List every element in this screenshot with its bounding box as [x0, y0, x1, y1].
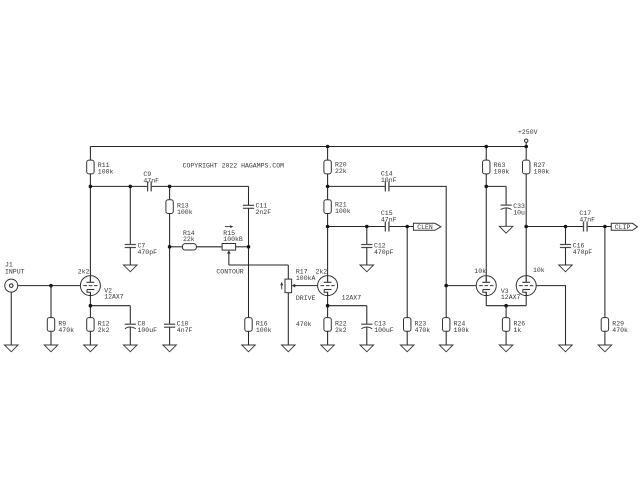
wire C14 to V3a grid node — [389, 186, 446, 285]
ground C7 — [124, 265, 138, 272]
junction B+ rail / +250V / R27 — [524, 145, 528, 149]
wire V3a grid node to V3a grid — [446, 285, 476, 287]
svg-text:470k: 470k — [612, 327, 628, 334]
capacitor C8 100uF — [125, 306, 157, 345]
net flag CLEN output — [413, 223, 441, 231]
capacitor C10 4n7F — [164, 247, 193, 345]
svg-text:2n2F: 2n2F — [256, 209, 272, 216]
junction J1 / R9 / V2a grid — [49, 284, 53, 288]
svg-text:2k2: 2k2 — [98, 327, 110, 334]
wire V2a cathode to C8 — [90, 305, 130, 307]
resistor R29 470k — [601, 227, 628, 346]
wire V2b cathode to C13 — [328, 305, 367, 307]
junction B+ rail / R63 — [484, 145, 488, 149]
svg-text:CLEN: CLEN — [417, 224, 433, 231]
svg-text:2k2: 2k2 — [335, 327, 347, 334]
tube V2 triode b 12AX7 — [318, 227, 362, 306]
ground C8 — [124, 345, 138, 352]
svg-text:+250V: +250V — [518, 129, 538, 136]
svg-text:470pF: 470pF — [374, 249, 394, 256]
svg-text:CONTOUR: CONTOUR — [216, 268, 243, 275]
ground R9 — [44, 345, 58, 352]
resistor R16 100k — [245, 247, 272, 345]
wire R14 row left — [170, 246, 183, 248]
wire B+ supply top rail — [90, 146, 526, 148]
wire C17 to CLIP/R29 — [587, 226, 611, 228]
junction V3 cathodes / R26 — [504, 304, 508, 308]
wire C9 to R13/C11 — [151, 185, 249, 187]
svg-text:22k: 22k — [335, 168, 347, 175]
capacitor C14 10nF — [381, 170, 397, 191]
svg-text:100k: 100k — [256, 327, 272, 334]
wire V2a plate node to C9/C7 — [90, 185, 147, 187]
capacitor C17 47nF — [579, 210, 595, 231]
resistor R11 100k — [87, 147, 114, 187]
svg-text:22k: 22k — [183, 236, 195, 243]
ground R26 — [499, 345, 513, 352]
ground R23 — [400, 345, 414, 352]
resistor R24 100k — [443, 286, 470, 345]
capacitor C7 470pF — [125, 186, 157, 265]
svg-text:470k: 470k — [296, 321, 312, 328]
net flag CLIP output — [611, 223, 637, 231]
junction C16 tap — [564, 225, 568, 229]
label 10k V3b grid stopper — [533, 267, 545, 274]
wire R17 wiper to V2b grid — [295, 285, 318, 287]
svg-text:100uF: 100uF — [374, 327, 394, 334]
wire C15 to CLEN/R23 — [389, 226, 413, 228]
resistor R9 470k — [47, 286, 74, 345]
tube V3 triode b 12AX7 — [516, 227, 536, 306]
junction R15 / C11 / R16 — [247, 245, 251, 249]
svg-text:470k: 470k — [415, 327, 431, 334]
label 2k2 V2b grid stopper — [316, 268, 328, 275]
wire V2b plate to C15/C12 — [328, 226, 386, 228]
resistor R13 100k — [166, 186, 193, 246]
junction R63 / C33 / V3a plate — [484, 185, 488, 189]
wire V2b plate node to C14 — [328, 185, 386, 187]
capacitor C11 2n2F — [243, 186, 271, 246]
junction R23 / CLEN — [405, 225, 409, 229]
svg-text:100k: 100k — [494, 168, 510, 175]
resistor R63 100k — [483, 147, 510, 187]
label CONTOUR — [216, 268, 243, 275]
svg-text:47nF: 47nF — [381, 217, 397, 224]
resistor R22 2k2 — [324, 306, 347, 345]
svg-text:100kA: 100kA — [296, 275, 316, 282]
junction C7 tap — [129, 185, 133, 189]
ground R24 — [439, 345, 453, 352]
ground R29 — [598, 345, 612, 352]
label 2k2 V2a grid stopper — [78, 268, 90, 275]
capacitor C15 47nF — [381, 210, 397, 231]
svg-text:100k: 100k — [335, 208, 351, 215]
capacitor C16 470pF — [560, 227, 592, 266]
capacitor C12 470pF — [361, 227, 393, 266]
svg-text:12AX7: 12AX7 — [104, 294, 124, 301]
junction B+ rail / R20 — [326, 145, 330, 149]
svg-text:100kB: 100kB — [223, 236, 243, 243]
svg-text:470pF: 470pF — [138, 249, 158, 256]
svg-text:10k: 10k — [533, 267, 545, 274]
capacitor C9 47nF — [143, 171, 159, 191]
power +250V terminal — [518, 129, 538, 147]
junction R11 / V2a plate — [89, 185, 93, 189]
resistor R12 2k2 — [87, 306, 110, 345]
resistor R14 22k — [182, 230, 196, 250]
junction R20 / R21 / C14 — [326, 185, 330, 189]
svg-text:2k2: 2k2 — [316, 268, 328, 275]
ground C12 — [360, 265, 374, 272]
junction V2b cathode / R22 / C13 — [326, 304, 330, 308]
svg-text:10k: 10k — [474, 268, 486, 275]
junction V2a cathode / R12 / C8 — [89, 304, 93, 308]
junction C14 / R24 / V3a grid — [444, 284, 448, 288]
ground R22 — [321, 345, 335, 352]
wire R63 node to C33 — [486, 185, 506, 187]
svg-text:100k: 100k — [98, 168, 114, 175]
svg-text:47nF: 47nF — [579, 217, 595, 224]
ground R12 — [84, 345, 98, 352]
ground C10 — [163, 345, 177, 352]
ground J1 — [4, 345, 18, 352]
svg-text:INPUT: INPUT — [5, 268, 25, 275]
wire R14 to R15 — [196, 246, 222, 248]
svg-text:CLIP: CLIP — [615, 224, 631, 231]
wire V3b plate to C17 — [526, 226, 584, 228]
capacitor C33 10u — [501, 186, 526, 226]
wire J1 sleeve to ground — [10, 292, 12, 345]
svg-text:4n7F: 4n7F — [177, 327, 193, 334]
svg-text:100k: 100k — [177, 209, 193, 216]
svg-text:10nF: 10nF — [381, 177, 397, 184]
wire R15 wiper to R17 top — [229, 264, 288, 266]
ground C33 — [499, 226, 513, 233]
junction R27 / V3b plate / C17 — [524, 225, 528, 229]
svg-text:10u: 10u — [513, 210, 525, 217]
label copyright — [183, 162, 285, 169]
resistor R26 1k — [502, 306, 525, 345]
ground V3b grid — [559, 345, 573, 352]
resistor R27 100k — [523, 147, 550, 227]
junction R29 / CLIP — [603, 225, 607, 229]
wire V3b grid to 10k ground — [536, 286, 565, 345]
ground C13 — [360, 345, 374, 352]
junction R13 / R14 — [168, 245, 172, 249]
capacitor C13 100uF — [361, 306, 394, 345]
connector J1 input jack — [5, 261, 25, 292]
svg-text:470pF: 470pF — [573, 249, 593, 256]
wire J1 to V2a grid — [18, 285, 81, 287]
svg-text:1k: 1k — [514, 327, 522, 334]
svg-text:100uF: 100uF — [138, 327, 158, 334]
junction R13 tap — [168, 185, 172, 189]
svg-text:12AX7: 12AX7 — [342, 295, 362, 302]
ground R17 — [282, 345, 296, 352]
svg-text:DRIVE: DRIVE — [296, 295, 316, 302]
potentiometer R15 100kB — [222, 225, 243, 265]
svg-text:470k: 470k — [58, 327, 74, 334]
label 10k V3a grid stopper — [474, 268, 486, 275]
resistor R20 22k — [324, 147, 347, 187]
junction C12 tap — [365, 225, 369, 229]
svg-text:47nF: 47nF — [143, 178, 159, 185]
resistor R21 100k — [324, 186, 351, 226]
resistor R23 470k — [404, 227, 431, 346]
wire V3 cathodes common — [486, 305, 526, 307]
tube V2 triode a 12AX7 — [80, 186, 123, 305]
ground R16 — [242, 345, 256, 352]
svg-text:100k: 100k — [534, 168, 550, 175]
tube V3 triode a 12AX7 — [476, 186, 520, 305]
ground C16 — [559, 265, 573, 272]
svg-text:12AX7: 12AX7 — [501, 294, 521, 301]
svg-text:J1: J1 — [5, 261, 13, 268]
svg-text:100k: 100k — [454, 327, 470, 334]
wire R15 to C11/R16 node — [235, 246, 248, 248]
svg-text:2k2: 2k2 — [78, 268, 90, 275]
potentiometer R17 100kA DRIVE — [280, 265, 315, 345]
svg-text:COPYRIGHT 2022 HAGAMPS.COM: COPYRIGHT 2022 HAGAMPS.COM — [183, 162, 285, 169]
junction R21 / V2b plate / C15 — [326, 225, 330, 229]
